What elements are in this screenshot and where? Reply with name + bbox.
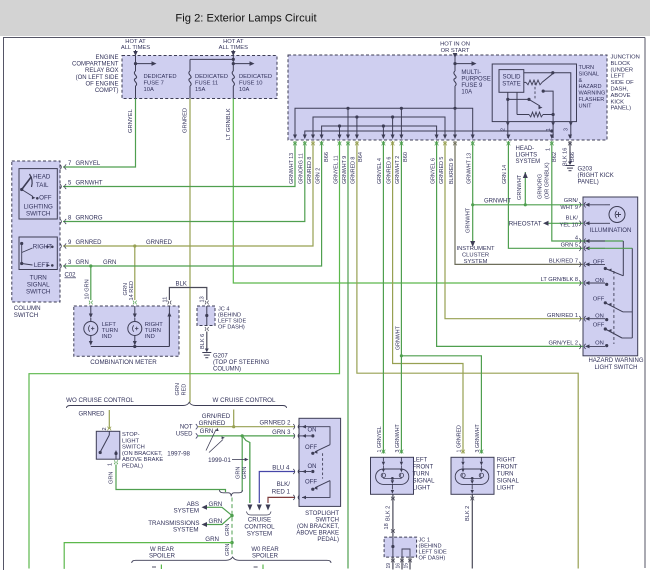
svg-text:B64: B64 <box>358 152 364 162</box>
svg-text:BLK 2: BLK 2 <box>386 506 392 521</box>
svg-text:B60: B60 <box>403 152 409 162</box>
svg-text:1: 1 <box>108 463 114 466</box>
svg-text:OFF: OFF <box>39 195 52 202</box>
svg-text:13: 13 <box>199 296 205 302</box>
svg-text:GRNYEL 4: GRNYEL 4 <box>377 158 383 184</box>
svg-text:W REAR: W REAR <box>150 547 175 553</box>
svg-text:SIGNAL: SIGNAL <box>497 479 520 485</box>
svg-text:LEFT: LEFT <box>34 262 49 269</box>
svg-text:BLK/: BLK/ <box>566 216 579 222</box>
svg-text:GRNRED 8: GRNRED 8 <box>307 157 313 184</box>
svg-text:RIGHT: RIGHT <box>33 244 52 251</box>
svg-text:DEDICATED: DEDICATED <box>144 74 177 80</box>
svg-text:GRN 3: GRN 3 <box>272 430 291 436</box>
svg-text:GRNRED 2: GRNRED 2 <box>259 420 291 426</box>
svg-text:FUSE 7: FUSE 7 <box>144 81 164 87</box>
svg-text:SYSTEM: SYSTEM <box>516 159 541 165</box>
svg-text:LT GRN/BLK 8: LT GRN/BLK 8 <box>541 277 578 283</box>
svg-text:GRNRED: GRNRED <box>183 108 189 133</box>
svg-text:BLU 4: BLU 4 <box>272 464 290 471</box>
svg-text:(ON BRACKET,: (ON BRACKET, <box>297 524 339 530</box>
svg-text:BLOCK: BLOCK <box>611 61 631 67</box>
svg-text:15A: 15A <box>195 87 205 93</box>
svg-text:COLUMN): COLUMN) <box>213 367 241 373</box>
svg-text:GRN: GRN <box>225 524 231 536</box>
svg-text:STOP-: STOP- <box>122 432 140 438</box>
svg-text:GRNRED: GRNRED <box>79 412 106 418</box>
svg-text:GRN/: GRN/ <box>564 198 579 204</box>
svg-text:10 GRN: 10 GRN <box>84 279 90 299</box>
svg-text:GRN: GRN <box>109 472 115 484</box>
svg-text:COMPARTMENT: COMPARTMENT <box>72 62 119 68</box>
svg-text:G207: G207 <box>213 354 228 360</box>
svg-text:2: 2 <box>501 128 507 131</box>
svg-text:GRN: GRN <box>225 544 231 556</box>
svg-text:GRN/YEL 2: GRN/YEL 2 <box>548 341 578 347</box>
svg-text:GRN: GRN <box>209 518 223 525</box>
svg-text:3: 3 <box>564 128 570 131</box>
svg-text:11: 11 <box>162 297 168 303</box>
svg-text:GRNYEL 11: GRNYEL 11 <box>333 155 339 184</box>
svg-text:FUSE 10: FUSE 10 <box>239 81 263 87</box>
svg-text:1999-01: 1999-01 <box>208 457 231 464</box>
svg-text:19: 19 <box>386 563 392 569</box>
svg-text:10A: 10A <box>144 87 154 93</box>
svg-text:ENGINE: ENGINE <box>95 55 118 61</box>
svg-text:PANEL): PANEL) <box>611 106 632 112</box>
svg-text:ILLUMINATION: ILLUMINATION <box>590 228 632 234</box>
svg-text:GRN: GRN <box>76 260 89 266</box>
svg-text:OF DASH): OF DASH) <box>218 325 245 331</box>
svg-text:GRNWHT: GRNWHT <box>76 181 103 187</box>
svg-text:KICK: KICK <box>611 99 625 105</box>
svg-text:GRNRED: GRNRED <box>76 240 103 246</box>
svg-text:OFF: OFF <box>593 323 605 329</box>
svg-text:USED: USED <box>176 432 193 438</box>
svg-text:NOT: NOT <box>180 424 193 430</box>
svg-text:(OR GRNBLK): (OR GRNBLK) <box>545 162 551 199</box>
svg-text:SYSTEM: SYSTEM <box>174 507 199 514</box>
svg-text:SIGNAL: SIGNAL <box>27 282 50 289</box>
svg-text:(RIGHT KICK: (RIGHT KICK <box>578 173 614 179</box>
svg-text:GRNORG: GRNORG <box>538 174 544 199</box>
svg-text:TAIL: TAIL <box>36 182 49 189</box>
svg-text:16: 16 <box>395 563 401 569</box>
svg-text:GRN: GRN <box>175 383 181 395</box>
svg-text:SIDE OF: SIDE OF <box>611 80 635 86</box>
svg-text:GRNWHT: GRNWHT <box>517 174 523 200</box>
svg-text:OF DASH): OF DASH) <box>419 556 446 562</box>
svg-text:OF ENGINE: OF ENGINE <box>85 81 118 87</box>
svg-text:BLK/: BLK/ <box>277 481 291 488</box>
svg-text:PEDAL): PEDAL) <box>122 464 143 470</box>
svg-text:OFF: OFF <box>305 445 317 451</box>
svg-text:PANEL): PANEL) <box>578 180 599 186</box>
svg-text:(TOP OF STEERING: (TOP OF STEERING <box>213 360 270 366</box>
svg-text:TURN: TURN <box>30 275 47 282</box>
svg-text:HAZARD: HAZARD <box>579 84 602 90</box>
svg-text:GRNYEL 6: GRNYEL 6 <box>430 158 436 184</box>
svg-text:GRNWHT 9: GRNWHT 9 <box>342 156 348 184</box>
svg-text:GRN 14: GRN 14 <box>502 165 508 184</box>
svg-text:LIGHT SWITCH: LIGHT SWITCH <box>595 365 638 371</box>
svg-text:GRNWHT 2: GRNWHT 2 <box>395 156 401 184</box>
svg-text:GRN 5: GRN 5 <box>561 243 578 249</box>
svg-text:IND: IND <box>102 334 112 340</box>
svg-text:ABOVE BRAKE: ABOVE BRAKE <box>296 531 339 537</box>
svg-text:YEL 10: YEL 10 <box>560 223 578 229</box>
svg-text:BLK 2: BLK 2 <box>465 506 471 521</box>
svg-text:WARNING: WARNING <box>579 91 606 97</box>
svg-text:LEFT: LEFT <box>611 74 626 80</box>
svg-text:GRNWHT: GRNWHT <box>466 207 472 233</box>
svg-text:TURN: TURN <box>413 472 430 478</box>
svg-text:DASH,: DASH, <box>611 87 629 93</box>
svg-text:B62: B62 <box>552 152 558 162</box>
svg-text:GRNYEL: GRNYEL <box>128 108 134 133</box>
svg-text:BLK 16: BLK 16 <box>563 148 569 166</box>
svg-text:HOT IN ON: HOT IN ON <box>440 42 470 48</box>
svg-text:GRN 2: GRN 2 <box>315 168 321 184</box>
svg-text:INSTRUMENT: INSTRUMENT <box>457 246 495 252</box>
svg-text:CONTROL: CONTROL <box>244 524 275 531</box>
svg-text:HEAD-: HEAD- <box>516 146 535 152</box>
svg-text:W CRUISE CONTROL: W CRUISE CONTROL <box>213 397 276 404</box>
svg-text:GRNYEL: GRNYEL <box>76 161 101 167</box>
svg-text:OFF: OFF <box>593 259 605 265</box>
svg-text:GRNORG: GRNORG <box>76 216 103 222</box>
svg-text:4: 4 <box>575 235 578 241</box>
svg-text:FRONT: FRONT <box>413 465 434 471</box>
svg-text:2: 2 <box>102 427 108 430</box>
svg-text:LIGHT: LIGHT <box>122 438 140 444</box>
svg-text:LIGHT: LIGHT <box>413 486 431 492</box>
svg-text:SIGNAL: SIGNAL <box>413 479 436 485</box>
svg-text:UNIT: UNIT <box>579 103 593 109</box>
svg-text:FUSE 9: FUSE 9 <box>461 83 483 89</box>
svg-text:LIGHTS: LIGHTS <box>516 153 538 159</box>
svg-text:HAZARD WARNING: HAZARD WARNING <box>588 358 643 364</box>
svg-text:STOPLIGHT: STOPLIGHT <box>305 511 339 517</box>
svg-text:GRNWHT 13: GRNWHT 13 <box>467 153 473 184</box>
svg-text:SPOILER: SPOILER <box>252 553 279 559</box>
svg-text:10A: 10A <box>239 87 249 93</box>
svg-text:BLK 6: BLK 6 <box>200 334 206 349</box>
svg-text:ABOVE: ABOVE <box>611 93 631 99</box>
svg-text:GRN: GRN <box>236 467 242 479</box>
svg-text:SPOILER: SPOILER <box>149 553 176 559</box>
svg-text:LIGHTING: LIGHTING <box>24 204 53 211</box>
svg-text:STATE: STATE <box>502 82 520 88</box>
svg-text:GRN: GRN <box>209 501 223 508</box>
svg-text:RED 1: RED 1 <box>272 488 291 495</box>
svg-text:GRNRED: GRNRED <box>146 240 173 246</box>
svg-text:SOLID: SOLID <box>502 75 521 81</box>
svg-text:3 GRNWHT: 3 GRNWHT <box>395 423 401 452</box>
svg-text:BLK: BLK <box>176 282 187 288</box>
svg-text:BLKRED 9: BLKRED 9 <box>449 158 455 184</box>
svg-text:1 GRNRED: 1 GRNRED <box>457 425 463 453</box>
svg-text:3 GRNWHT: 3 GRNWHT <box>475 423 481 452</box>
svg-text:GRNRED: GRNRED <box>199 420 226 427</box>
svg-text:(ON BRACKET,: (ON BRACKET, <box>122 451 163 457</box>
svg-text:GRNWHT: GRNWHT <box>395 325 401 350</box>
svg-text:BLK/RED 7: BLK/RED 7 <box>549 259 578 265</box>
svg-text:MULTI-: MULTI- <box>461 70 481 76</box>
svg-text:SWITCH: SWITCH <box>14 312 38 319</box>
svg-text:&: & <box>579 78 583 84</box>
svg-text:RELAY BOX: RELAY BOX <box>85 68 118 74</box>
svg-text:Fig 2: Exterior Lamps Circuit: Fig 2: Exterior Lamps Circuit <box>175 13 317 25</box>
svg-text:GRNRED 5: GRNRED 5 <box>439 157 445 184</box>
svg-text:GRN: GRN <box>205 536 219 543</box>
svg-text:SYSTEM: SYSTEM <box>173 526 198 533</box>
svg-text:GRN: GRN <box>103 260 116 266</box>
svg-text:DEDICATED: DEDICATED <box>239 74 272 80</box>
svg-text:CLUSTER: CLUSTER <box>462 253 489 259</box>
svg-text:ON: ON <box>595 313 604 319</box>
svg-text:CRUISE: CRUISE <box>248 517 271 524</box>
svg-text:G203: G203 <box>578 167 593 173</box>
svg-text:COMPT): COMPT) <box>95 88 119 94</box>
svg-text:B66: B66 <box>324 152 330 162</box>
svg-text:COMBINATION METER: COMBINATION METER <box>90 359 157 366</box>
svg-text:GRN: GRN <box>200 428 214 435</box>
svg-text:1: 1 <box>546 148 552 151</box>
svg-text:10A: 10A <box>461 90 472 96</box>
svg-text:1 GRNYEL: 1 GRNYEL <box>377 426 383 452</box>
svg-text:GRNRED 6: GRNRED 6 <box>386 157 392 184</box>
svg-text:18: 18 <box>384 523 390 529</box>
svg-text:14 RED: 14 RED <box>129 281 135 301</box>
svg-text:GRN/RED 1: GRN/RED 1 <box>547 313 578 319</box>
svg-text:RED: RED <box>182 384 188 396</box>
svg-text:ON: ON <box>595 341 604 347</box>
svg-text:PEDAL): PEDAL) <box>317 537 339 543</box>
svg-text:JUNCTION: JUNCTION <box>611 55 640 61</box>
svg-text:COLUMN: COLUMN <box>14 305 41 312</box>
svg-text:ALL TIMES: ALL TIMES <box>219 45 248 51</box>
svg-text:GRNWHT 13: GRNWHT 13 <box>289 153 295 184</box>
svg-text:1997-98: 1997-98 <box>167 451 190 458</box>
svg-text:W0 REAR: W0 REAR <box>251 547 279 553</box>
svg-text:15: 15 <box>403 563 409 569</box>
svg-text:GRNRED 8: GRNRED 8 <box>351 157 357 184</box>
svg-text:SWITCH: SWITCH <box>315 518 339 524</box>
svg-text:PURPOSE: PURPOSE <box>461 77 490 83</box>
svg-text:IND: IND <box>145 334 155 340</box>
svg-text:RIGHT: RIGHT <box>497 458 516 464</box>
svg-text:LEFT: LEFT <box>413 458 428 464</box>
svg-text:SWITCH: SWITCH <box>122 445 145 451</box>
svg-text:WHT 9: WHT 9 <box>560 205 578 211</box>
svg-text:TURN: TURN <box>497 472 514 478</box>
svg-text:FUSE 11: FUSE 11 <box>195 81 218 87</box>
svg-text:RHEOSTAT: RHEOSTAT <box>509 221 542 228</box>
svg-text:GRNWHT: GRNWHT <box>484 199 511 205</box>
svg-text:SYSTEM: SYSTEM <box>247 531 272 538</box>
svg-text:GRNORG 11: GRNORG 11 <box>299 153 305 184</box>
svg-text:LT GRNBLK: LT GRNBLK <box>226 108 232 140</box>
svg-text:SWITCH: SWITCH <box>26 289 50 296</box>
svg-text:HEAD: HEAD <box>33 174 51 181</box>
svg-text:OFF: OFF <box>305 479 317 485</box>
svg-text:(UNDER: (UNDER <box>611 67 634 73</box>
svg-text:DEDICATED: DEDICATED <box>195 74 228 80</box>
svg-text:ON: ON <box>308 428 317 434</box>
svg-text:ON: ON <box>595 278 604 284</box>
svg-text:LIGHT: LIGHT <box>497 486 515 492</box>
svg-text:SIGNAL: SIGNAL <box>579 71 600 77</box>
svg-text:B66: B66 <box>570 152 576 162</box>
svg-text:GRN: GRN <box>242 467 248 479</box>
svg-text:WO CRUISE CONTROL: WO CRUISE CONTROL <box>66 397 134 404</box>
svg-text:ABOVE BRAKE: ABOVE BRAKE <box>122 457 163 463</box>
svg-text:SWITCH: SWITCH <box>26 211 50 218</box>
svg-text:(ON LEFT SIDE: (ON LEFT SIDE <box>76 75 119 81</box>
svg-text:OR START: OR START <box>441 48 470 54</box>
svg-text:1: 1 <box>546 128 552 131</box>
svg-text:ALL TIMES: ALL TIMES <box>121 45 150 51</box>
svg-text:OFF: OFF <box>593 297 605 303</box>
svg-text:FRONT: FRONT <box>497 465 518 471</box>
svg-text:FLASHER: FLASHER <box>579 97 605 103</box>
svg-text:TURN: TURN <box>579 65 595 71</box>
svg-text:SYSTEM: SYSTEM <box>464 259 488 265</box>
svg-text:ON: ON <box>308 464 317 470</box>
